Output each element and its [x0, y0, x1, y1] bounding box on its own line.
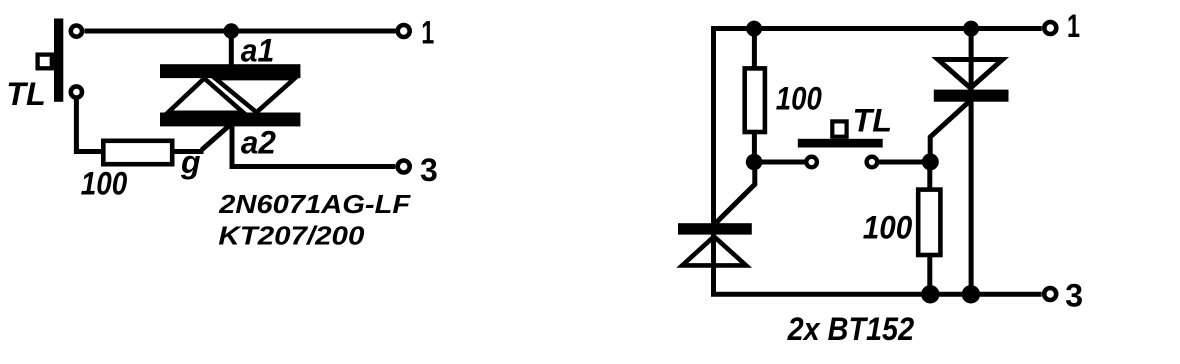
wire: button bottom contact down and to resistor — [76, 99, 103, 152]
node dot top of resistor branch — [746, 21, 762, 37]
svg-text:1: 1 — [421, 15, 434, 51]
resistor 100 (upper left) body — [745, 68, 765, 132]
node dot bottom right — [962, 285, 980, 303]
node dot below resistor — [746, 154, 763, 171]
terminal 1 circle (right) — [1044, 22, 1056, 34]
resistor 100 (upper left) leads — [752, 29, 757, 68]
node junction dot at a1 — [224, 23, 240, 39]
wire: node to button left contact — [754, 160, 804, 165]
pushbutton TL (left) bottom contact circle — [71, 86, 82, 97]
terminal 1 circle (left) — [398, 25, 410, 37]
triac right triangle (pointing down) — [215, 78, 295, 112]
pushbutton TL (right) left contact — [806, 157, 817, 168]
triac left triangle (pointing up) — [168, 78, 244, 113]
svg-text:TL: TL — [853, 103, 893, 139]
left thyristor gate wire — [716, 162, 755, 223]
pushbutton TL (left) bar — [54, 19, 63, 102]
node dot top of thyristor branch — [963, 21, 979, 37]
svg-text:100: 100 — [776, 80, 822, 116]
pushbutton TL (right) right contact — [867, 157, 878, 168]
svg-text:1: 1 — [1067, 8, 1080, 44]
wire: top contact to terminal 1 — [85, 29, 396, 34]
svg-text:g: g — [180, 144, 201, 180]
wire: button right contact to node — [879, 160, 930, 165]
svg-text:TL: TL — [6, 76, 46, 112]
svg-text:100: 100 — [81, 166, 128, 202]
svg-text:3: 3 — [1065, 278, 1083, 314]
pushbutton TL (right) bar — [798, 139, 883, 148]
left thyristor triangle (pointing up) — [682, 237, 746, 266]
resistor R 100 (left) — [103, 141, 172, 164]
left thyristor cathode bar — [678, 223, 752, 234]
resistor 100 (lower right) body — [918, 190, 940, 255]
terminal 3 circle (left) — [398, 161, 410, 173]
resistor 100 (lower right) leads — [927, 162, 932, 190]
gate diagonal wire — [202, 125, 231, 151]
right thyristor main vertical wire — [969, 29, 974, 295]
triac MT2 bottom bar — [160, 113, 300, 127]
node dot right of button — [922, 153, 939, 170]
right thyristor triangle (pointing down) — [938, 60, 1003, 89]
svg-text:2N6071AG-LF: 2N6071AG-LF — [218, 189, 411, 219]
pushbutton TL (left) top contact circle — [71, 26, 82, 37]
node dot bottom left — [921, 285, 939, 303]
gate wire of right thyristor — [930, 102, 969, 162]
pushbutton TL (right) actuator — [832, 121, 846, 136]
svg-text:2x BT152: 2x BT152 — [787, 311, 915, 347]
triac MT1 top bar — [160, 64, 300, 78]
wire a2 vertical + horizontal to terminal 3 — [232, 126, 395, 166]
svg-text:a2: a2 — [241, 124, 276, 160]
svg-text:100: 100 — [863, 210, 913, 246]
pushbutton TL (left) actuator — [38, 55, 52, 69]
svg-text:a1: a1 — [241, 33, 274, 69]
wire a1 vertical — [229, 31, 234, 66]
svg-text:KT207/200: KT207/200 — [218, 220, 365, 250]
wire frame: left vertical + top wire + bottom wire — [714, 29, 1042, 295]
terminal 3 circle (right) — [1044, 288, 1056, 300]
right thyristor cathode bar — [934, 90, 1009, 102]
svg-text:3: 3 — [420, 152, 438, 188]
gate horizontal wire from resistor — [174, 149, 204, 154]
